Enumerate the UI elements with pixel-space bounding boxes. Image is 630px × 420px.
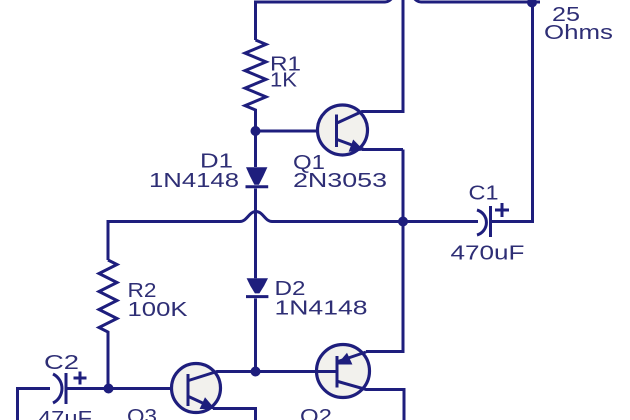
resistor R2	[99, 260, 117, 389]
svg-text:Ohms: Ohms	[544, 21, 613, 44]
resistor R1	[245, 40, 266, 167]
transistor Q2 circle	[317, 345, 370, 398]
transistor Q1 collector lead	[337, 0, 403, 123]
svg-text:C2: C2	[44, 351, 79, 374]
node D2/Q3/Q2 junction dot	[251, 367, 261, 377]
svg-text:2N3053: 2N3053	[293, 169, 387, 192]
diode D2 cathode bar	[246, 295, 268, 298]
svg-text:C1: C1	[469, 182, 499, 205]
wire bus node down to Q2 emitter	[366, 222, 403, 352]
transistor Q3 emitter arrow	[200, 397, 215, 409]
transistor Q2 collector lead	[338, 382, 404, 420]
transistor Q2 emitter arrow	[337, 353, 352, 365]
wire main bus right segment (node to C1)	[403, 220, 478, 223]
capacitor C1 polarity plus	[495, 203, 509, 217]
transistor Q3 base bar	[187, 374, 190, 406]
svg-text:1N4148: 1N4148	[149, 169, 239, 192]
capacitor C2 polarity plus	[74, 372, 87, 385]
diode D1 triangle	[246, 167, 267, 185]
transistor Q1 emitter lead	[337, 140, 403, 150]
transistor Q1 circle	[318, 105, 368, 155]
node top-right junction dot	[527, 0, 537, 8]
wire Q1 emitter to bus node	[402, 150, 405, 222]
svg-text:47uF: 47uF	[38, 407, 92, 420]
svg-text:Q2: Q2	[300, 405, 332, 420]
node C2/R2/Q3 junction dot	[104, 384, 114, 394]
transistor Q3 emitter lead	[189, 397, 256, 420]
diode D2 triangle	[247, 278, 268, 293]
transistor Q1 emitter arrow	[349, 140, 364, 152]
wire top supply rail with hop at x=403	[256, 0, 541, 40]
wire D1 to bus through hop	[254, 189, 257, 279]
node bus junction dot	[398, 217, 408, 227]
transistor Q2 emitter lead	[338, 352, 366, 362]
wire D2 to junction	[254, 298, 257, 371]
wire input from bottom-left to C2	[18, 389, 51, 420]
svg-text:Q3: Q3	[127, 405, 157, 420]
node R1/D1/Q1 junction dot	[251, 126, 261, 136]
transistor Q3 collector lead	[189, 372, 256, 381]
svg-text:470uF: 470uF	[451, 242, 525, 265]
wire Q2 base lead	[256, 370, 338, 373]
capacitor C2 straight plate	[65, 373, 68, 404]
wire Q1 base lead	[256, 130, 337, 133]
transistor Q2 base bar	[336, 356, 339, 388]
diode D1 cathode bar	[246, 185, 269, 188]
svg-text:100K: 100K	[128, 298, 188, 321]
svg-text:1N4148: 1N4148	[275, 296, 368, 319]
wire C2 to Q3 base	[66, 387, 188, 390]
svg-text:1K: 1K	[270, 69, 297, 92]
wire right drop from rail to C1 right plate	[492, 2, 533, 222]
transistor Q3 circle	[172, 364, 221, 413]
capacitor C1 straight plate	[489, 206, 492, 237]
wire main bus left segment with hop at x=256, corner down to R2	[108, 212, 403, 261]
capacitor C1 curved plate	[477, 210, 486, 235]
capacitor C2 curved plate	[53, 374, 62, 403]
transistor Q1 base bar	[335, 115, 338, 148]
